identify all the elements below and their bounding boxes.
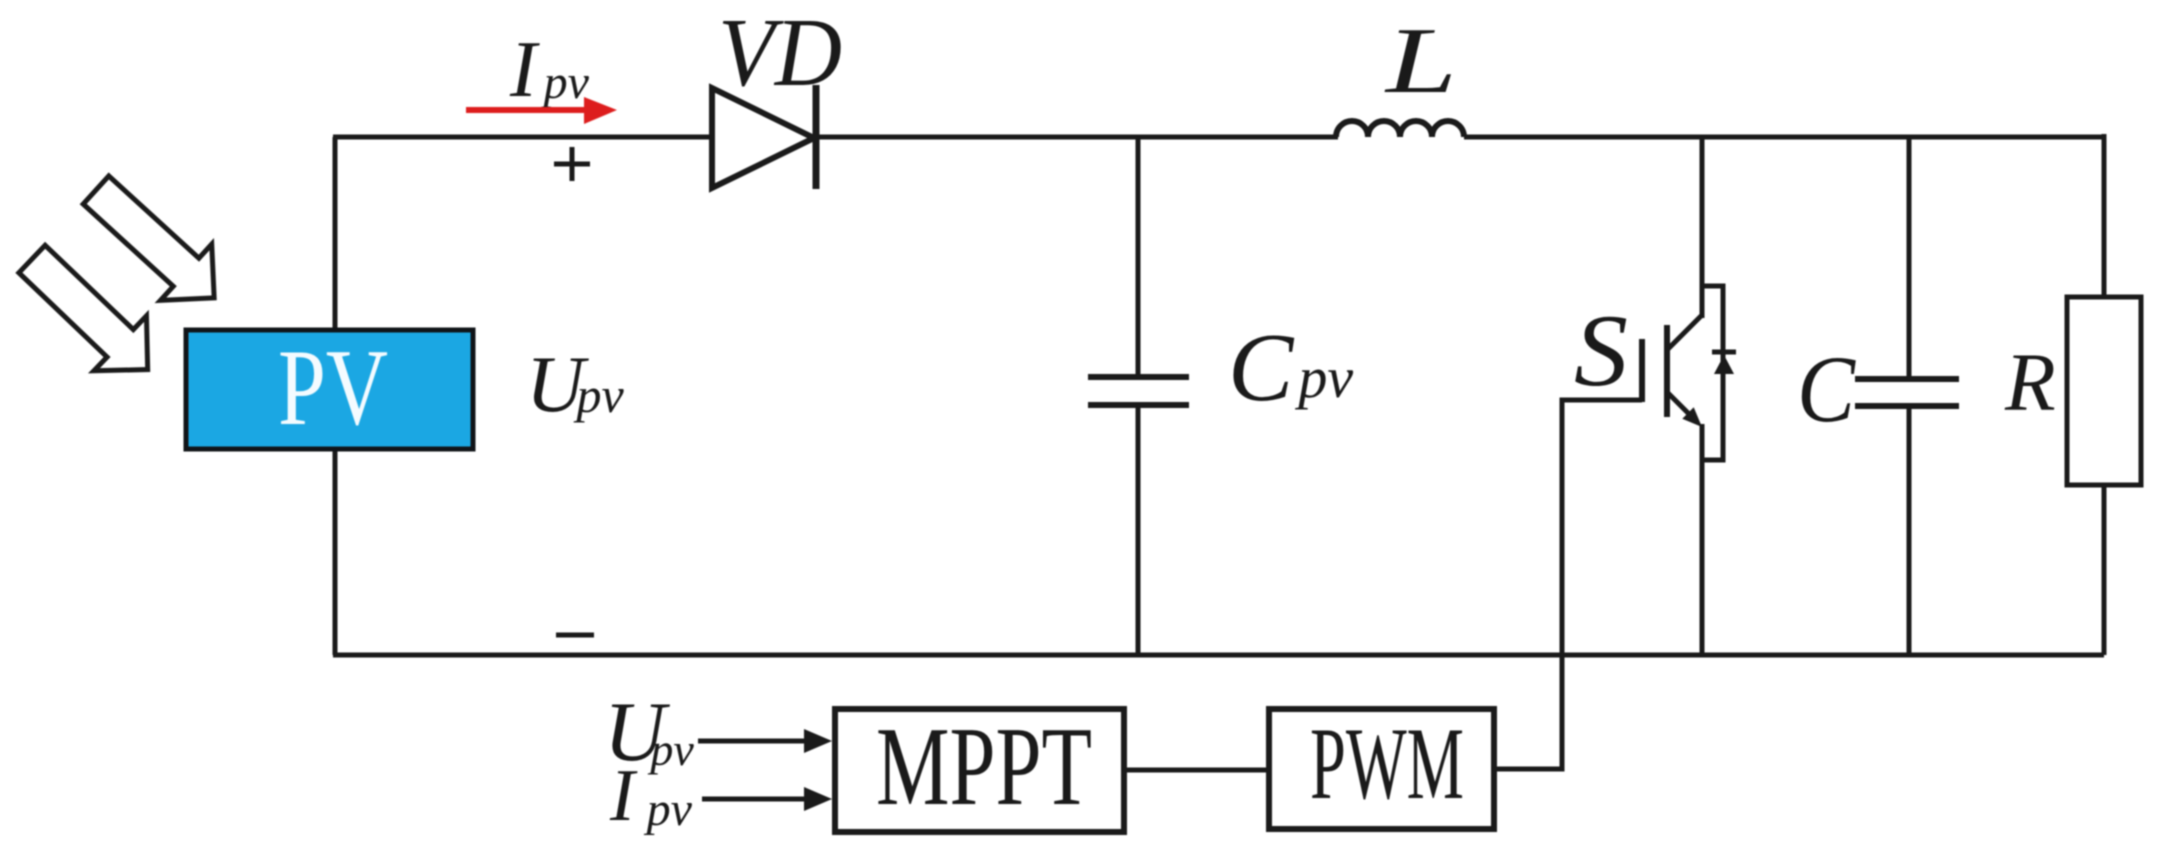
capacitor C bbox=[1855, 376, 1959, 382]
input arrow Upv bbox=[698, 739, 808, 744]
svg-text:R: R bbox=[2004, 336, 2056, 428]
wire: Cpv branch lower bbox=[1136, 405, 1141, 655]
IGBT S collector angled line bbox=[1667, 315, 1702, 350]
wire: emitter to bottom bus bbox=[1700, 424, 1705, 655]
svg-text:S: S bbox=[1574, 294, 1628, 408]
wire: top bus left segment bbox=[333, 135, 714, 140]
svg-text:VD: VD bbox=[718, 0, 842, 107]
antiparallel diode cathode bar bbox=[1712, 350, 1736, 355]
plus polarity mark bbox=[554, 162, 590, 167]
wire MPPT to PWM bbox=[1124, 768, 1269, 773]
input arrow Ipv bbox=[702, 797, 808, 802]
wire: R branch upper bbox=[2102, 134, 2107, 297]
antiparallel diode branch bbox=[1702, 286, 1723, 460]
svg-text:PWM: PWM bbox=[1310, 707, 1464, 821]
wire: Cpv branch upper bbox=[1136, 137, 1141, 378]
resistor R bbox=[2067, 297, 2141, 485]
inductor L bbox=[1336, 121, 1464, 137]
svg-text:C: C bbox=[1797, 336, 1856, 442]
IGBT S collector lead bbox=[1700, 137, 1705, 318]
svg-text:Ipv: Ipv bbox=[509, 26, 590, 114]
svg-text:MPPT: MPPT bbox=[876, 705, 1092, 829]
MPPT block bbox=[835, 709, 1124, 832]
wire: top bus middle segment bbox=[816, 135, 1338, 140]
wire: PV top lead bbox=[333, 137, 338, 332]
IGBT S body bar bbox=[1664, 325, 1670, 417]
sun ray arrow lower bbox=[6, 232, 174, 397]
svg-text:PV: PV bbox=[278, 327, 388, 448]
wire: C branch lower bbox=[1907, 406, 1912, 655]
diode VD bbox=[712, 88, 814, 188]
PV module box bbox=[186, 330, 473, 449]
IGBT S emitter angled line bbox=[1667, 392, 1694, 419]
IGBT S gate bar bbox=[1639, 339, 1645, 402]
gate wire bbox=[1496, 400, 1642, 769]
IGBT S emitter arrowhead bbox=[1682, 407, 1702, 427]
wire: top bus right segment bbox=[1464, 135, 2104, 140]
PWM block bbox=[1269, 709, 1494, 829]
capacitor Cpv bbox=[1088, 374, 1189, 380]
current arrow Ipv (red) bbox=[466, 107, 590, 113]
wire: PV bottom lead bbox=[333, 447, 338, 655]
sun ray arrow upper bbox=[70, 162, 239, 326]
wire: C branch upper bbox=[1907, 137, 1912, 379]
wire: bottom bus bbox=[333, 653, 2104, 658]
svg-text:Cpv: Cpv bbox=[1228, 314, 1353, 422]
svg-text:L: L bbox=[1383, 9, 1457, 113]
wire: R branch lower bbox=[2102, 485, 2107, 655]
antiparallel diode triangle bbox=[1714, 355, 1734, 374]
minus polarity mark bbox=[556, 633, 594, 638]
svg-text:Upv: Upv bbox=[526, 339, 625, 429]
